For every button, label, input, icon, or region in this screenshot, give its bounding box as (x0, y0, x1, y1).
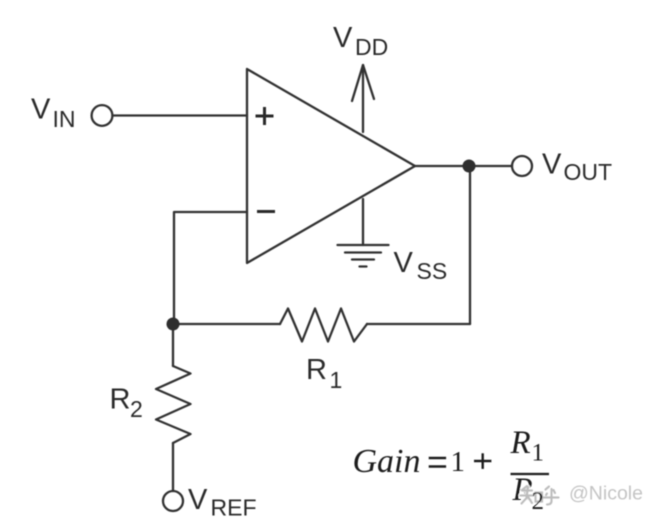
svg-text:V: V (333, 22, 353, 54)
svg-text:1: 1 (532, 440, 545, 467)
svg-text:DD: DD (355, 34, 388, 60)
svg-text:Gain: Gain (353, 443, 421, 480)
svg-text:2: 2 (130, 396, 143, 422)
svg-text:V: V (188, 484, 208, 516)
svg-text:IN: IN (53, 106, 76, 132)
svg-text:V: V (31, 94, 51, 126)
svg-text:REF: REF (211, 495, 257, 521)
svg-text:OUT: OUT (564, 159, 613, 185)
svg-text:R: R (110, 384, 131, 416)
svg-text:1: 1 (330, 367, 343, 393)
svg-text:V: V (394, 247, 414, 279)
svg-text:@Nicole: @Nicole (569, 483, 643, 505)
svg-text:R: R (510, 425, 531, 461)
svg-text:SS: SS (417, 258, 448, 284)
svg-text:1: 1 (451, 446, 466, 478)
svg-text:2: 2 (532, 488, 545, 515)
svg-text:R: R (306, 354, 327, 386)
svg-text:V: V (542, 149, 562, 181)
